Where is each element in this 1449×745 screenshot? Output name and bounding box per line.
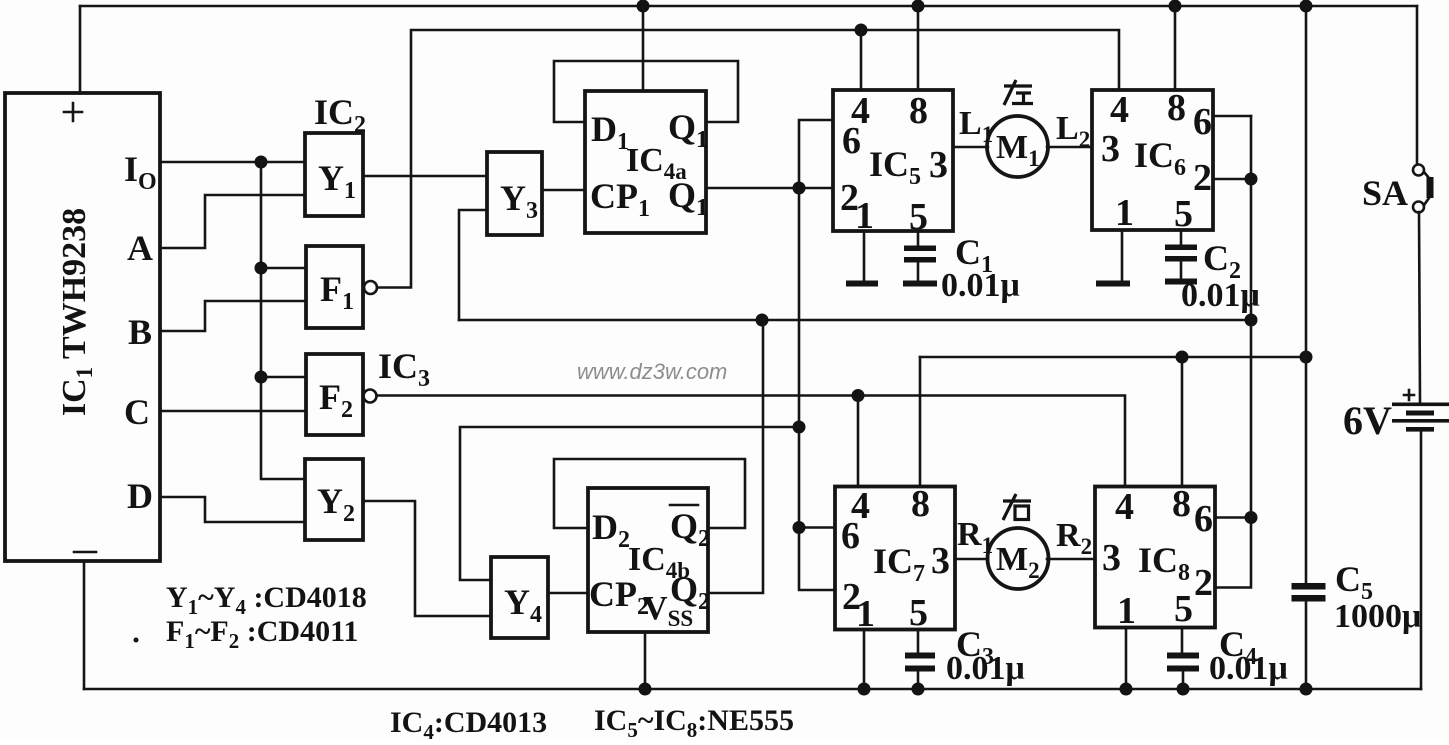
node C4 ground junction (1177, 683, 1190, 696)
wire +V rail for IC7/IC8 pin8 (920, 356, 1306, 359)
svg-text:8: 8 (911, 483, 930, 525)
wire IC8 pin8 riser (1181, 357, 1184, 487)
wire C3 to ground rail (917, 671, 920, 689)
node pin8 rail at IC8 (1176, 351, 1189, 364)
svg-text:1: 1 (856, 593, 875, 635)
ground bar under C1 (903, 281, 937, 287)
node F1 line to IC5 pin4 (855, 24, 868, 37)
wire C1 to ground bar (917, 262, 920, 280)
node junction to F1 (255, 262, 268, 275)
wire IC6 pin8 to top rail (1174, 6, 1177, 90)
svg-text:0.01μ: 0.01μ (946, 650, 1025, 687)
wire IC6 pin6 to right riser (1213, 115, 1251, 118)
svg-text:D: D (127, 476, 153, 516)
wire IC5 pin5 stub (917, 231, 920, 246)
wire motor M1 to IC6 pin3 (1047, 146, 1092, 149)
ground bar under IC5 pin1 (846, 281, 878, 287)
wire IC5 pin6 bracket (799, 120, 833, 188)
wire IC4a feedback loop Q1 to D1 (554, 61, 738, 122)
wire IC5 pin8 to top rail (917, 6, 920, 90)
svg-text:F1~F2 :CD4011: F1~F2 :CD4011 (166, 615, 358, 653)
wire IC1 plus riser (79, 6, 82, 93)
node top rail junction at IC4a (637, 0, 650, 13)
wire IC4a Vdd pin to top rail (642, 6, 645, 91)
motor M1 (987, 116, 1048, 177)
node IC8 pin1 ground junction (1120, 683, 1133, 696)
wire Y3 second input down to Q2 net (459, 210, 487, 320)
node top rail junction at right riser (1300, 0, 1313, 13)
svg-text:C: C (124, 392, 150, 432)
svg-text:1000μ: 1000μ (1334, 598, 1421, 635)
capacitor C4 plates (1167, 653, 1199, 659)
wire IC6 pin2 to right riser (1213, 178, 1251, 181)
flip-flop U4a CD4013 body (585, 91, 706, 233)
wire Y4 input from Q1bar net (460, 427, 799, 580)
wire bottom ground rail (84, 688, 1421, 691)
wire Io pin to Y1 input (160, 161, 305, 164)
timer U7 NE555 body (835, 487, 955, 630)
IC1 plus terminal mark (64, 103, 82, 121)
gate F1 inverter bubble (364, 281, 377, 294)
wire Vss pin to ground rail (644, 632, 647, 689)
node Q1bar riser to IC7 pin6 (793, 521, 806, 534)
wire IC6 pin5 stub (1180, 230, 1183, 245)
battery B1 6V plates (1392, 403, 1449, 407)
wire C2 to ground bar (1180, 261, 1183, 278)
wire IC7 pin8 riser (919, 357, 922, 487)
wire Q2 net horizontal rail (459, 319, 1251, 322)
wire Y3 output to CP1 (542, 189, 585, 192)
svg-text:3: 3 (929, 144, 948, 186)
wire motor M2 to IC8 pin3 (1047, 558, 1095, 561)
gate Y1 (CD4018) (305, 133, 363, 216)
wire Io distribution vertical to Y2 input (261, 162, 305, 479)
timer U6 NE555 body (1092, 90, 1213, 230)
svg-text:8: 8 (1172, 483, 1191, 525)
wire IC5 pin3 to motor M1 (953, 146, 988, 149)
wire battery negative riser (1420, 431, 1423, 689)
svg-text:0.01μ: 0.01μ (1181, 277, 1260, 314)
node F2 line to IC7 pin4 (852, 389, 865, 402)
svg-text:www.dz3w.com: www.dz3w.com (577, 359, 727, 384)
wire IC7 pin3 to motor M2 (955, 558, 988, 561)
svg-text:4: 4 (1115, 486, 1134, 528)
timer U8 NE555 body (1095, 487, 1215, 628)
wire D pin to Y2 input (160, 497, 305, 522)
svg-text:4: 4 (1110, 89, 1129, 131)
wire IC8 pin6 stub (1215, 516, 1251, 519)
battery plus mark (1404, 390, 1414, 400)
wire Y2 output to Y4 input (363, 501, 491, 616)
gate Y2 (CD4018) (305, 459, 363, 540)
svg-text:5: 5 (1174, 193, 1193, 235)
wire Q1bar riser down to IC7 pins 6,2 (799, 188, 835, 590)
svg-text:1: 1 (1117, 590, 1136, 632)
ground bar under IC6 pin1 (1096, 281, 1130, 287)
node pin8 rail at right riser (1300, 351, 1313, 364)
timer U5 NE555 body (833, 90, 953, 231)
svg-text:0.01μ: 0.01μ (941, 267, 1020, 304)
wire IC7 pin5 stub (917, 630, 920, 653)
gate F2 inverter bubble (364, 390, 377, 403)
node riser at IC8 pin6 (1245, 511, 1258, 524)
svg-text:B: B (128, 312, 152, 352)
wire A pin to Y1 input (160, 195, 305, 248)
node IC6 pin2 junction (1245, 173, 1258, 186)
wire right riser IC6 to IC8 pins 6,2 (1215, 116, 1251, 588)
node C5 ground junction (1300, 683, 1313, 696)
svg-text:3: 3 (1102, 537, 1121, 579)
node C3 ground junction (912, 683, 925, 696)
node Q1bar junction (793, 182, 806, 195)
wire IC4b feedback loop Q2bar to D2 (554, 459, 745, 528)
capacitor C1 plates (904, 246, 936, 252)
svg-text:5: 5 (909, 592, 928, 634)
wire branch down to IC7 pin4 (857, 396, 860, 487)
svg-text:6: 6 (1193, 101, 1212, 143)
label you (right) chinese char (1003, 494, 1031, 520)
svg-text:SA: SA (1362, 173, 1408, 213)
wire right +V riser top rail to C5 (1305, 6, 1308, 583)
wire branch to F1 input (261, 267, 306, 270)
wire C4 to ground rail (1182, 671, 1185, 689)
IC U1 TWH9238 body (5, 93, 160, 561)
flip-flop U4b CD4013 body (588, 488, 708, 632)
node Vss ground junction (639, 683, 652, 696)
wire F2 output across to IC7/IC8 pin4 (377, 396, 1126, 487)
switch SA actuator bar (1427, 177, 1434, 198)
stray period mark (134, 638, 139, 643)
node top rail junction at IC6 pin8 (1169, 0, 1182, 13)
wire IC8 pin5 stub (1181, 628, 1184, 654)
node Q1bar riser to Y4 wire (793, 421, 806, 434)
gate Y4 (CD4018) (491, 557, 548, 638)
svg-text:6V: 6V (1343, 398, 1392, 443)
wire branch to F2 input (261, 376, 306, 379)
node Q2 riser junction (756, 314, 769, 327)
wire Y1 output to Y3 input (363, 175, 487, 178)
IC1 minus terminal mark (74, 551, 96, 554)
wire branch down to IC5 pin4 (860, 30, 863, 90)
node junction to F2 (255, 371, 268, 384)
capacitor C5 plates (1292, 583, 1326, 590)
wire IC5 pin1 to ground (863, 231, 866, 280)
wire IC7 pin6 stub (799, 526, 835, 529)
switch SA contact circles (1413, 165, 1424, 176)
node Q2 rail to IC6/IC8 riser (1245, 314, 1258, 327)
capacitor C2 plates (1165, 245, 1197, 251)
wire IC1 minus to bottom rail (83, 561, 86, 689)
motor M2 (988, 528, 1049, 589)
svg-text:3: 3 (1101, 128, 1120, 170)
wire Q2 output riser to Q2 net (708, 320, 763, 593)
svg-text:8: 8 (909, 90, 928, 132)
wire SA to battery (1419, 212, 1420, 402)
node IC7 pin1 ground junction (858, 683, 871, 696)
wire Q1bar output to IC5 pin2 (706, 187, 833, 190)
svg-text:2: 2 (1194, 562, 1213, 604)
gate F1 (CD4011 NAND) (306, 246, 363, 328)
svg-text:5: 5 (1174, 588, 1193, 630)
svg-text:6: 6 (1194, 498, 1213, 540)
wire B pin to F1 input (160, 301, 306, 331)
svg-text:IC4:CD4013: IC4:CD4013 (390, 706, 547, 740)
svg-text:IC1 TWH9238: IC1 TWH9238 (56, 208, 97, 416)
svg-text:6: 6 (841, 515, 860, 557)
svg-text:6: 6 (842, 120, 861, 162)
svg-text:A: A (127, 228, 153, 268)
wire SA riser from top rail (1416, 6, 1419, 164)
label zuo (left) chinese char (1004, 80, 1033, 105)
svg-text:2: 2 (1193, 157, 1212, 199)
svg-text:3: 3 (931, 540, 950, 582)
svg-text:8: 8 (1167, 87, 1186, 129)
wire IC6 pin1 to ground (1121, 230, 1124, 280)
wire top +V rail (80, 5, 1417, 8)
svg-text:0.01μ: 0.01μ (1209, 650, 1288, 687)
wire Y4 output to CP2 (548, 592, 588, 595)
gate Y3 (CD4018) (487, 152, 542, 235)
wire F1 output up and across to IC5/IC6 pin4 (377, 30, 1119, 288)
ground bar under C2 (1165, 279, 1197, 285)
wire C5 to ground rail (1305, 601, 1308, 689)
svg-text:1: 1 (1115, 192, 1134, 234)
wire IC8 pin1 to ground rail (1125, 628, 1128, 690)
node Io junction (255, 156, 268, 169)
node top rail junction at IC5 pin8 (912, 0, 925, 13)
wire C pin to F2 input (160, 410, 306, 413)
wire IC7 pin1 to ground rail (863, 630, 866, 689)
gate F2 (CD4011 NAND) (306, 354, 363, 435)
capacitor C3 plates (905, 653, 935, 659)
